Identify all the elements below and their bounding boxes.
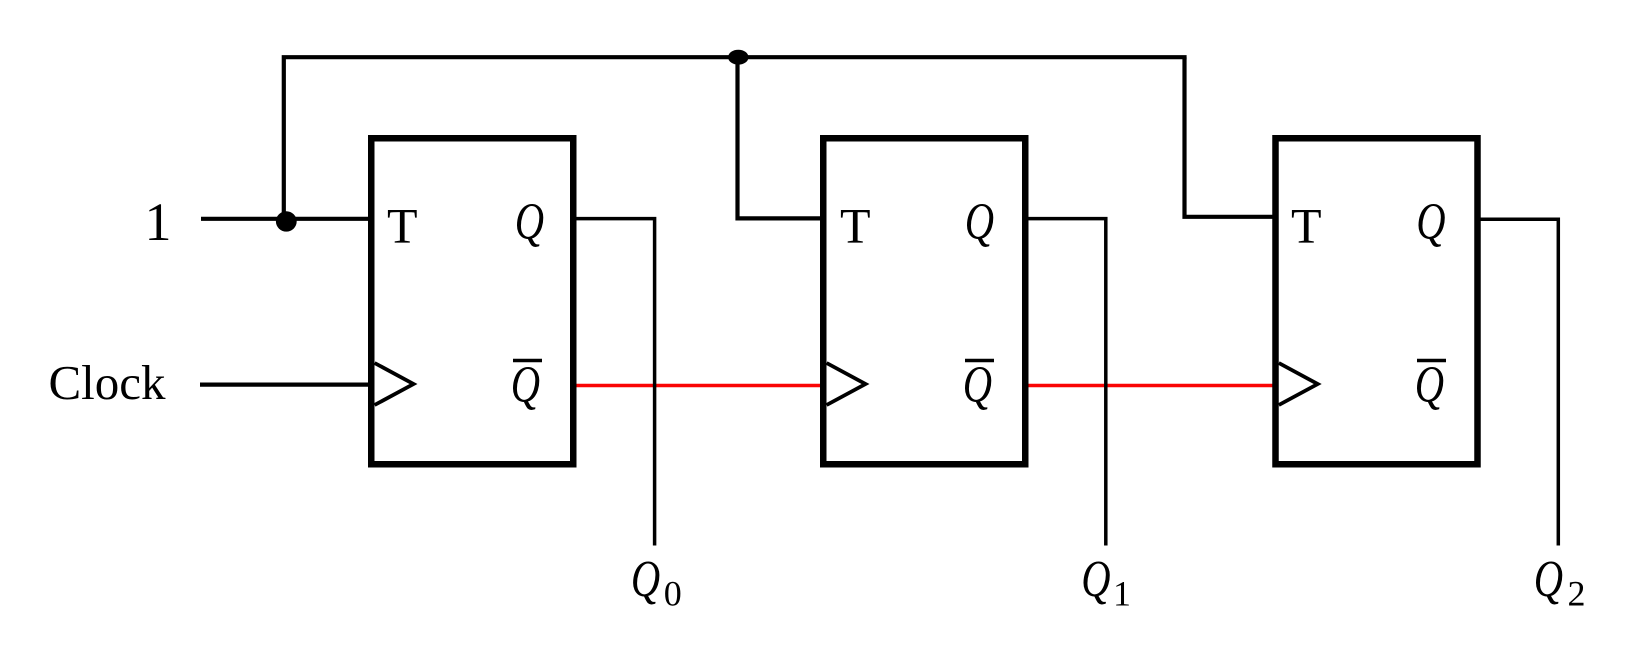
svg-text:2: 2	[1568, 574, 1586, 614]
svg-text:0: 0	[664, 574, 682, 614]
svg-text:T: T	[1291, 198, 1322, 254]
svg-text:T: T	[387, 198, 418, 254]
svg-text:1: 1	[145, 192, 172, 252]
svg-text:1: 1	[1113, 574, 1131, 614]
svg-text:Q: Q	[1081, 550, 1110, 608]
svg-text:T: T	[840, 198, 871, 254]
svg-text:Q: Q	[963, 356, 992, 414]
svg-text:Q: Q	[1416, 193, 1445, 251]
svg-text:Q: Q	[631, 550, 660, 608]
svg-text:Q: Q	[1415, 356, 1444, 414]
svg-text:Q: Q	[515, 193, 544, 251]
svg-text:Q: Q	[511, 356, 540, 414]
svg-text:Q: Q	[1534, 550, 1563, 608]
svg-text:Clock: Clock	[49, 355, 167, 410]
svg-text:Q: Q	[965, 193, 994, 251]
